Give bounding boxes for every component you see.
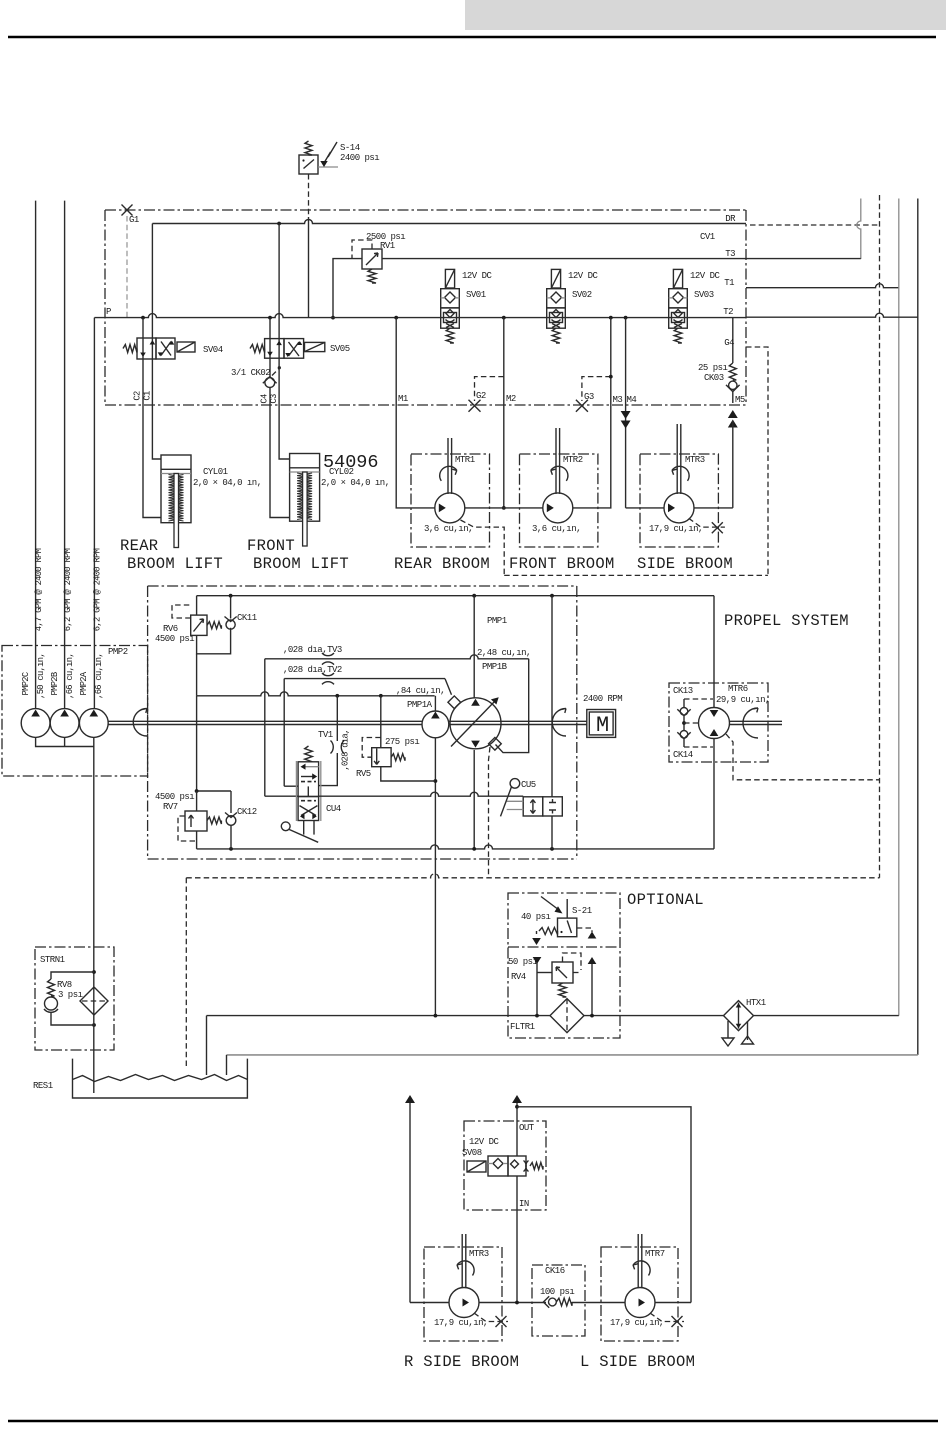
svg-text:M2: M2 — [506, 394, 516, 404]
label G3 — [584, 392, 594, 402]
svg-text:SV02: SV02 — [572, 290, 592, 300]
svg-text:P: P — [106, 307, 111, 317]
svg-text:FLTR1: FLTR1 — [510, 1022, 535, 1032]
label 54096 — [323, 452, 379, 473]
svg-text:BROOM LIFT: BROOM LIFT — [127, 555, 223, 573]
svg-text:4,7 GPM @ 2400 RPM: 4,7 GPM @ 2400 RPM — [34, 548, 44, 631]
svg-text:CK13: CK13 — [673, 686, 693, 696]
wire charge left drop upper — [196, 596, 198, 615]
solenoid valve SV02 — [547, 269, 566, 343]
propel frame top — [148, 585, 577, 587]
label REAR BROOM LIFT — [127, 555, 223, 573]
motor MTR3 frame — [640, 454, 718, 547]
svg-text:2,48 cu,ın,: 2,48 cu,ın, — [477, 648, 531, 658]
label CK14 — [673, 750, 693, 760]
svg-text:REAR BROOM: REAR BROOM — [394, 555, 490, 573]
top rule — [8, 36, 936, 38]
wire sv08 out riser — [512, 1095, 522, 1156]
wire P line — [94, 314, 746, 320]
label RV7 — [163, 802, 178, 812]
wire MTR7 outlet — [655, 1302, 691, 1304]
wire DR dashed to right — [750, 224, 880, 226]
label TV1 — [318, 730, 333, 740]
label CK16 — [545, 1266, 565, 1276]
svg-text:4500 psı: 4500 psı — [155, 792, 194, 802]
check valve CK03 — [726, 317, 740, 403]
label CYL02 — [329, 467, 354, 477]
motor MTR2 frame — [520, 454, 598, 547]
wire MTR3 to M5 — [694, 507, 733, 509]
cylinder CYL01 — [161, 455, 191, 548]
label FRONT — [247, 537, 295, 555]
label PMP1A — [407, 700, 433, 710]
label OPTIONAL — [627, 891, 704, 909]
motor MTR7 — [625, 1234, 655, 1318]
label STRN1 — [40, 955, 65, 965]
svg-text:RV6: RV6 — [163, 624, 178, 634]
wire SV05 P riser — [269, 318, 271, 339]
svg-text:STRN1: STRN1 — [40, 955, 65, 965]
svg-text:CU5: CU5 — [521, 780, 536, 790]
label RV8 set — [58, 990, 83, 1000]
wire TV1 riser — [336, 696, 338, 741]
wire T1 return vertical — [898, 199, 900, 1016]
label S-21 — [572, 906, 592, 916]
check valve CK11 — [225, 617, 237, 630]
wire M3 line — [573, 318, 611, 508]
label T1 — [724, 278, 734, 288]
label 40 psi — [521, 912, 551, 922]
propel frame left — [147, 586, 149, 859]
relief valve RV6 — [172, 605, 221, 635]
svg-text:3/1 CK02: 3/1 CK02 — [231, 368, 270, 378]
label CU4 — [326, 804, 341, 814]
label SV01 — [466, 290, 486, 300]
wire pump line 1 — [35, 201, 37, 709]
svg-text:REAR: REAR — [120, 537, 158, 555]
svg-text:CU4: CU4 — [326, 804, 341, 814]
svg-text:MTR2: MTR2 — [563, 455, 583, 465]
label MTR3 disp — [649, 524, 703, 534]
label T2 — [723, 307, 733, 317]
svg-text:FRONT BROOM: FRONT BROOM — [509, 555, 615, 573]
relief valve RV4 — [537, 953, 581, 997]
label M5 — [735, 395, 745, 405]
svg-text:2,0 × 04,0 ın,: 2,0 × 04,0 ın, — [193, 478, 262, 488]
wire T2 return vertical — [917, 199, 919, 1055]
label 3/1 CK02 — [231, 368, 270, 378]
motor MTR3 bottom — [449, 1234, 479, 1318]
svg-text:17,9 cu,ın,: 17,9 cu,ın, — [610, 1318, 664, 1328]
svg-text:RV1: RV1 — [380, 241, 395, 251]
label SV05 — [330, 344, 350, 354]
pump assembly PMP2 frame — [2, 646, 148, 777]
svg-text:RV8: RV8 — [57, 980, 72, 990]
check valve CK16 frame — [532, 1265, 585, 1336]
svg-text:100 psı: 100 psı — [540, 1287, 574, 1297]
label 275 psi — [385, 737, 419, 747]
manifold CV1 right edge — [745, 210, 747, 405]
wire loop bottom line — [197, 845, 714, 851]
svg-text:40 psı: 40 psı — [521, 912, 551, 922]
wire C1 line — [152, 359, 161, 459]
bypass valve RV8 — [44, 972, 94, 1025]
label MTR3 bottom disp — [434, 1318, 488, 1328]
label MTR6 disp — [716, 695, 770, 705]
svg-text:CK16: CK16 — [545, 1266, 565, 1276]
wire M1 line — [396, 318, 435, 508]
wire loop right side — [713, 596, 715, 849]
check valve CK14 — [677, 721, 690, 747]
wire top link to MTR7 — [517, 1107, 691, 1303]
wire return main line — [207, 1014, 899, 1018]
label MTR2 disp — [532, 524, 581, 534]
label TV1 dia rotated — [341, 729, 351, 770]
wire T3 line — [382, 258, 861, 260]
svg-text:T1: T1 — [724, 278, 734, 288]
label flow 2 rotated — [63, 548, 73, 631]
shaft rotation arrow — [133, 709, 147, 737]
wire SV04 tank line C1 — [151, 224, 153, 339]
pump PMP1B servo boxes — [448, 696, 501, 750]
pump PMP2B — [50, 709, 79, 738]
label G2 — [476, 391, 486, 401]
label SV03 — [694, 290, 714, 300]
pump PMP2C — [21, 709, 50, 738]
pump PMP1A — [422, 696, 449, 738]
valve CU5 — [501, 779, 563, 817]
svg-text:CK03: CK03 — [704, 373, 724, 383]
manifold CV1 top edge — [105, 209, 746, 211]
wire TV3 drop — [265, 659, 298, 796]
label CV1 — [700, 232, 715, 242]
wire loop top line — [197, 594, 714, 598]
label IN — [519, 1199, 529, 1209]
wire M4 line — [621, 318, 664, 508]
shaft MTR6 — [730, 721, 783, 724]
shaft PMP1 to motor M — [449, 721, 587, 724]
svg-text:SV03: SV03 — [694, 290, 714, 300]
label SV08 12V DC — [469, 1137, 500, 1147]
label G1 — [129, 215, 139, 225]
svg-text:MTR1: MTR1 — [455, 455, 475, 465]
svg-text:RV7: RV7 — [163, 802, 178, 812]
pressure switch S-21 — [532, 897, 596, 946]
wire CK16 to MTR7 — [572, 1302, 625, 1304]
label RV8 — [57, 980, 72, 990]
label MTR2 — [563, 455, 583, 465]
wire RV7 CK12 top link — [195, 789, 231, 793]
pump PMP2A — [79, 709, 108, 738]
check valve CK13 — [677, 699, 690, 723]
svg-text:12V DC: 12V DC — [568, 271, 599, 281]
wire S-14 sense dashed — [308, 174, 310, 217]
svg-text:M: M — [596, 713, 609, 738]
wire G1 dashed — [126, 216, 128, 318]
wire RV5 riser — [380, 696, 382, 747]
relief valve RV5 — [362, 738, 405, 767]
label SV02 — [572, 290, 592, 300]
svg-text:T2: T2 — [723, 307, 733, 317]
strainer STRN1 — [80, 970, 108, 1027]
label R SIDE BROOM — [404, 1353, 519, 1371]
wire C3 line — [279, 358, 290, 459]
label RV1 — [380, 241, 395, 251]
label 25 psi — [698, 363, 728, 373]
motor MTR6 frame — [669, 683, 768, 762]
port arrows RV4 — [533, 957, 597, 964]
label SV03 12V DC — [690, 271, 721, 281]
svg-text:17,9 cu,ın,: 17,9 cu,ın, — [434, 1318, 488, 1328]
motor MTR1 frame — [411, 454, 490, 547]
wire S-14 sense to P line — [308, 217, 310, 318]
relief valve RV1 — [352, 240, 382, 283]
svg-text:,50 cu,ın,: ,50 cu,ın, — [36, 653, 46, 699]
svg-text:RV4: RV4 — [511, 972, 526, 982]
label RV6 set — [155, 634, 194, 644]
wire RV4 right drop — [591, 964, 593, 1016]
wire SV04 P riser — [142, 318, 144, 338]
check valve CK02 — [263, 358, 281, 404]
label C1 rotated — [143, 391, 153, 401]
svg-text:S-14: S-14 — [340, 143, 360, 153]
motor MTR7 frame — [601, 1247, 678, 1341]
label PMP1B disp — [477, 648, 531, 658]
wire SV05 tank riser C3 — [278, 224, 280, 339]
label HTX1 — [746, 998, 766, 1008]
label T3 — [725, 249, 735, 259]
check valve CK12 — [225, 791, 237, 849]
pressure switch S-14 — [299, 141, 338, 174]
port M5 arrows — [728, 410, 738, 508]
label MTR3 bottom — [469, 1249, 489, 1259]
svg-text:MTR3: MTR3 — [685, 455, 705, 465]
label PMP2A rotated — [79, 671, 89, 695]
svg-text:,028 dıa,: ,028 dıa, — [341, 729, 351, 770]
svg-text:M5: M5 — [735, 395, 745, 405]
wire CU5 drop — [551, 816, 553, 849]
strainer STRN1 frame — [35, 947, 114, 1050]
wire left return riser — [405, 1095, 415, 1303]
wire PMP1B case dashed — [489, 747, 491, 878]
svg-text:2400 RPM: 2400 RPM — [583, 694, 622, 704]
wire TV1 to CU4 — [319, 753, 338, 786]
svg-text:17,9 cu,ın,: 17,9 cu,ın, — [649, 524, 703, 534]
label SV01 12V DC — [462, 271, 493, 281]
svg-text:G4: G4 — [724, 338, 734, 348]
wire C2 line — [143, 359, 161, 518]
label PMP1 — [487, 616, 507, 626]
solenoid valve SV03 — [669, 269, 688, 343]
label PMP2C disp rotated — [36, 653, 46, 699]
wire MTR3 drain dashed — [689, 518, 725, 533]
label SIDE BROOM — [637, 555, 733, 573]
port G3 — [576, 375, 613, 412]
svg-text:PMP2: PMP2 — [108, 647, 128, 657]
svg-text:IN: IN — [519, 1199, 529, 1209]
svg-text:CYL01: CYL01 — [203, 467, 228, 477]
solenoid valve SV08 frame — [464, 1121, 546, 1210]
svg-text:3,6 cu,ın,: 3,6 cu,ın, — [532, 524, 581, 534]
label 2400 psi — [340, 153, 379, 163]
relief valve RV7 — [178, 811, 221, 841]
label 100 psi — [540, 1287, 574, 1297]
svg-text:FRONT: FRONT — [247, 537, 295, 555]
svg-text:,028 dıa,TV2: ,028 dıa,TV2 — [283, 665, 342, 675]
label CYL01 bore — [193, 478, 262, 488]
wire C4 line — [270, 404, 290, 518]
wire pump line 2 — [64, 201, 66, 709]
label M3 — [613, 395, 623, 405]
svg-text:SV05: SV05 — [330, 344, 350, 354]
svg-text:M1: M1 — [398, 394, 408, 404]
orifice TV1 — [331, 741, 345, 754]
svg-text:RV5: RV5 — [356, 769, 371, 779]
wire case drain dashed long — [186, 874, 879, 878]
label FLTR1 — [510, 1022, 535, 1032]
label TV3 — [283, 645, 342, 655]
wire PMP1A drop — [434, 738, 438, 1016]
svg-text:PMP2A: PMP2A — [79, 671, 89, 695]
lift valve SV04 — [123, 338, 195, 359]
motor MTR6 — [699, 708, 730, 739]
orifice TV2 line — [284, 673, 451, 695]
motor MTR3 bottom frame — [424, 1247, 502, 1341]
label CK13 — [673, 686, 693, 696]
label MTR7 disp — [610, 1318, 664, 1328]
svg-text:2,0 × 04,0 ın,: 2,0 × 04,0 ın, — [321, 478, 390, 488]
lift valve SV05 — [250, 339, 325, 359]
svg-text:S-21: S-21 — [572, 906, 592, 916]
manifold CV1 bottom edge — [105, 404, 746, 406]
svg-text:C2: C2 — [133, 391, 143, 401]
svg-text:,66 cu,ın,: ,66 cu,ın, — [94, 653, 104, 699]
svg-text:RES1: RES1 — [33, 1081, 53, 1091]
valve CU4 — [281, 746, 320, 842]
propel frame bottom — [148, 858, 577, 860]
page header gray band — [465, 0, 946, 30]
svg-text:OPTIONAL: OPTIONAL — [627, 891, 704, 909]
label SV02 12V DC — [568, 271, 599, 281]
wire M2 line — [502, 318, 506, 510]
wire DR drop right side — [857, 199, 861, 260]
filter FLTR1 — [550, 999, 584, 1033]
label flow 3 rotated — [93, 548, 103, 631]
label PMP2B disp rotated — [65, 653, 75, 699]
label 2500 psi — [366, 232, 405, 242]
orifice TV3 line — [265, 653, 529, 753]
svg-text:T3: T3 — [725, 249, 735, 259]
wire PMP1B top riser — [473, 596, 475, 699]
label PMP1B — [482, 662, 508, 672]
svg-text:54096: 54096 — [323, 452, 379, 473]
svg-text:,84 cu,ın,: ,84 cu,ın, — [396, 686, 445, 696]
svg-text:50 psı: 50 psı — [508, 957, 538, 967]
label RV7 set — [155, 792, 194, 802]
label M2 — [506, 394, 516, 404]
svg-text:3 psı: 3 psı — [58, 990, 83, 1000]
svg-text:C1: C1 — [143, 391, 153, 401]
port G1 plug — [122, 205, 133, 216]
label C2 rotated — [133, 391, 143, 401]
label CU5 — [521, 780, 536, 790]
motor MTR2 — [543, 428, 573, 523]
wire CK13 CK14 dashed links — [684, 699, 713, 747]
label CK03 — [704, 373, 724, 383]
svg-text:,028 dıa,TV3: ,028 dıa,TV3 — [283, 645, 342, 655]
label REAR — [120, 537, 158, 555]
label M4 — [627, 395, 637, 405]
svg-text:MTR7: MTR7 — [645, 1249, 665, 1259]
wire T2 gray return — [227, 1054, 918, 1056]
label RV5 — [356, 769, 371, 779]
label RES1 — [33, 1081, 53, 1091]
label CK12 — [237, 807, 257, 817]
wire RV5 outlet — [381, 766, 436, 781]
wire RV1 inlet — [331, 259, 362, 320]
solenoid valve SV08 — [467, 1156, 543, 1176]
port G4 dashed — [746, 347, 768, 575]
svg-text:PMP2C: PMP2C — [21, 672, 31, 695]
label PMP1A disp — [396, 686, 445, 696]
svg-text:PMP1A: PMP1A — [407, 700, 433, 710]
svg-text:MTR6: MTR6 — [728, 684, 748, 694]
label CK11 — [237, 613, 257, 623]
svg-text:PMP2B: PMP2B — [50, 672, 60, 695]
svg-text:CK14: CK14 — [673, 750, 693, 760]
label PMP2B rotated — [50, 672, 60, 695]
motor MTR3 — [664, 424, 694, 523]
svg-text:6,2 GPM @ 2400 RPM: 6,2 GPM @ 2400 RPM — [93, 548, 103, 631]
svg-text:PMP1: PMP1 — [487, 616, 507, 626]
wire DR dashed down right side — [879, 195, 881, 878]
label S-14 — [340, 143, 360, 153]
svg-text:,66 cu,ın,: ,66 cu,ın, — [65, 653, 75, 699]
wire MTR3b drain dashed — [474, 1313, 508, 1327]
wire MTR6 case drain dashed — [726, 734, 880, 780]
label FRONT BROOM LIFT — [253, 555, 349, 573]
solenoid valve SV01 — [441, 269, 460, 343]
label SV08 — [462, 1148, 482, 1158]
svg-text:C4: C4 — [260, 394, 270, 404]
svg-text:G2: G2 — [476, 391, 486, 401]
wire charge mid drop — [196, 696, 198, 791]
label RV4 — [511, 972, 526, 982]
label MTR6 — [728, 684, 748, 694]
label M1 — [398, 394, 408, 404]
svg-text:12V DC: 12V DC — [469, 1137, 500, 1147]
svg-text:L SIDE BROOM: L SIDE BROOM — [580, 1353, 695, 1371]
wire line 796 — [319, 792, 524, 796]
label P — [106, 307, 111, 317]
label PROPEL SYSTEM — [724, 612, 849, 630]
port G2 — [469, 377, 504, 412]
svg-text:DR: DR — [725, 214, 736, 224]
reservoir RES1 — [73, 1059, 248, 1098]
wire charge line 696 — [197, 692, 435, 698]
wire T2 drop to tank — [226, 1055, 228, 1075]
label CYL02 bore — [321, 478, 390, 488]
heat exchanger HTX1 — [722, 1001, 754, 1046]
label SV04 — [203, 345, 223, 355]
label PMP2C rotated — [21, 672, 31, 695]
wire T2 line right — [746, 313, 918, 317]
wire case drain dashed drop — [185, 878, 187, 1068]
label 2400 RPM — [583, 694, 622, 704]
svg-text:G1: G1 — [129, 215, 139, 225]
svg-text:MTR3: MTR3 — [469, 1249, 489, 1259]
check valve CK16 — [543, 1296, 572, 1308]
